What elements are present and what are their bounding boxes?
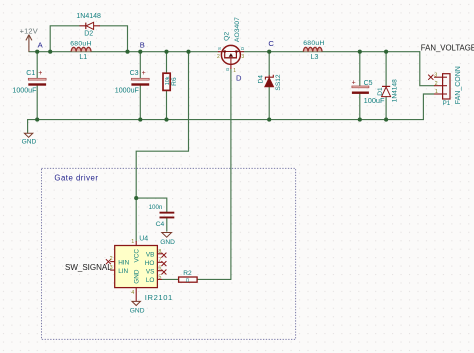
ground symbol bottom-left [22,133,37,145]
junction R6 bottom [164,118,168,122]
capacitor C5 [352,79,385,104]
svg-text:1N4148: 1N4148 [392,79,399,102]
svg-text:LO: LO [146,277,155,284]
svg-text:D: D [236,74,242,83]
svg-text:SW_SIGNAL: SW_SIGNAL [65,263,112,272]
wire top rail left segment (+12V to Q2 source) [29,51,218,53]
wire VCC feed from node B rail down and across [136,52,188,242]
svg-text:C1: C1 [26,70,35,77]
junction C3 bottom [138,118,142,122]
junction node A [35,50,39,54]
svg-text:0: 0 [186,278,189,284]
wire C5 vertical [359,52,361,120]
U4 pin 1 VCC stub [131,239,136,246]
svg-text:VB: VB [146,251,155,258]
svg-text:IR2101: IR2101 [145,293,173,302]
svg-text:GND: GND [22,139,37,146]
svg-text:D2: D2 [84,31,93,38]
svg-text:D4: D4 [258,75,265,84]
connector P1 FAN_CONN [428,66,462,107]
svg-text:LIN: LIN [118,268,128,275]
power +12V symbol [26,35,32,52]
wire top rail right segment (Q2 drain to FAN_VOLTAGE corner) [244,51,420,53]
junction D2 right [125,50,129,54]
svg-text:GND: GND [133,269,140,284]
op-amp driver U4 IR2101 body [115,236,173,302]
svg-text:C4: C4 [156,221,165,228]
svg-text:+: + [352,79,356,86]
svg-text:G: G [225,67,230,71]
wire ground rail rise to connector pin 1 [423,94,434,120]
wire D4 vertical [268,52,270,120]
U4 pin 4 GND stub [131,288,136,302]
svg-text:3: 3 [241,54,244,60]
svg-text:C: C [268,39,274,48]
gate driver dashed box [42,168,296,339]
wire Q2 gate down to R2 [230,69,232,279]
svg-text:L3: L3 [311,54,319,61]
svg-text:Q2: Q2 [223,32,230,41]
Gate driver title [54,173,98,182]
inductor L1 680uH [70,40,92,61]
diode D1 1N4148 [377,79,399,102]
svg-text:R6: R6 [171,77,178,86]
svg-text:FAN_CONN: FAN_CONN [455,66,462,104]
svg-text:3: 3 [434,72,437,78]
U4 pin 8 VB stub with no-connect X [157,249,166,258]
svg-text:R2: R2 [183,270,192,277]
svg-text:AO3407: AO3407 [234,17,241,42]
U4 pin 3 LIN stub [110,265,115,271]
junction C5 top [358,50,362,54]
svg-text:4: 4 [131,290,134,296]
svg-text:1000uF: 1000uF [115,87,140,95]
svg-text:680uH: 680uH [303,40,325,47]
power +12V label [20,27,38,36]
junction node B / C3 top [138,50,142,54]
svg-text:L1: L1 [79,54,87,61]
ground under C4 [160,233,175,246]
node B label [140,40,145,49]
svg-text:GND: GND [160,239,175,246]
U4 pin 5 LO stub [157,274,162,280]
junction C1 bottom [35,118,39,122]
inductor L3 680uH [303,40,325,61]
Q2 value AO3407 [234,17,241,42]
junction D1 top [384,50,388,54]
P1 pin 2 [434,85,447,87]
svg-text:100n: 100n [149,204,163,211]
diode D2 1N4148 [76,13,101,37]
resistor R6 [163,73,178,90]
capacitor C4 100n [149,204,175,228]
svg-text:1: 1 [131,239,134,245]
svg-text:2: 2 [110,256,113,262]
ground under U4 [130,301,145,314]
P1 pin 1 [434,93,447,95]
svg-text:6: 6 [158,266,161,272]
wire ground stub to GND symbol bottom-left [27,120,29,133]
svg-text:100uF: 100uF [364,96,385,105]
svg-text:VCC: VCC [133,249,140,263]
svg-text:8: 8 [158,249,161,255]
svg-text:C5: C5 [364,80,373,87]
svg-text:7: 7 [158,257,161,263]
junction node C / D4 top [267,50,271,54]
wire ground rail [28,119,424,121]
net label FAN_VOLTAGE [421,43,474,52]
junction R6 top [164,50,168,54]
net label SW_SIGNAL [65,263,112,272]
svg-text:B: B [140,40,145,49]
svg-text:5: 5 [158,274,161,280]
U4 pin 7 HO stub with no-connect X [157,257,166,266]
junction D1 bottom [384,118,388,122]
resistor R2 [179,270,198,284]
svg-text:680uH: 680uH [70,40,92,47]
wire LO pin to R2 [162,278,179,280]
svg-text:+: + [142,70,146,77]
capacitor C3 [115,70,149,95]
node A label [38,41,44,50]
svg-text:D: D [240,47,245,50]
junction D4 bottom [267,118,271,122]
svg-text:Gate driver: Gate driver [54,173,98,182]
transistor Q2 AO3407 P-MOSFET [217,17,245,74]
svg-text:GND: GND [130,307,145,314]
wire C1 vertical [36,52,38,120]
Q2 reference [223,32,230,41]
junction D2 left [48,50,52,54]
svg-text:+: + [38,70,42,77]
diode D4 SS12 schottky [258,74,282,90]
node D label [236,74,242,83]
svg-text:1000uF: 1000uF [12,87,37,95]
svg-text:2: 2 [217,54,220,60]
svg-text:1: 1 [435,89,438,95]
junction C5 bottom [358,118,362,122]
svg-text:U4: U4 [139,236,148,243]
U4 pin 2 HIN stub with no-connect X [106,256,115,264]
node C label [268,39,274,48]
svg-text:S: S [217,47,222,50]
svg-text:D1: D1 [377,87,384,96]
wire C3 vertical [139,52,141,120]
wire R2 to gate riser [197,278,231,280]
wire D1 vertical [385,52,387,120]
wire C4 tap [136,198,167,231]
svg-text:HO: HO [145,260,155,267]
junction VCC feed top [186,50,190,54]
svg-text:+12V: +12V [20,27,38,36]
P1 pin 3 (NC) [434,76,447,78]
wire D2 bypass loop [50,26,127,52]
svg-text:10k: 10k [165,76,171,85]
capacitor C1 [12,70,46,95]
wire R6 vertical [166,52,168,120]
P1 value FAN_CONN [455,66,462,104]
svg-text:VS: VS [146,268,155,275]
svg-text:SS12: SS12 [275,74,282,90]
svg-text:FAN_VOLTAGE: FAN_VOLTAGE [421,43,474,52]
svg-text:P1: P1 [443,100,451,107]
svg-text:2: 2 [435,81,438,87]
svg-text:HIN: HIN [118,259,129,266]
U4 pin 6 VS stub with no-connect X [157,266,166,275]
svg-text:1N4148: 1N4148 [76,13,101,20]
wire FAN_VOLTAGE drop to connector pin 2 [420,52,434,86]
svg-text:C3: C3 [130,70,139,77]
junction C4 tap on VCC line [134,196,138,200]
